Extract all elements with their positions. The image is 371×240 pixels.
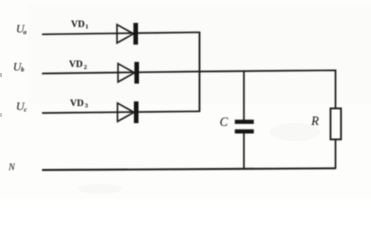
- svg-text:R: R: [310, 114, 319, 128]
- diode VD2: [118, 62, 139, 84]
- label VD3: [70, 99, 89, 110]
- wire Uc phase line: [42, 111, 200, 113]
- wire DC positive rail: [200, 70, 336, 108]
- node N label: [8, 163, 16, 173]
- diode VD1: [117, 23, 138, 45]
- capacitor C: [235, 120, 254, 134]
- resistor R: [331, 108, 342, 139]
- svg-text:2: 2: [84, 64, 87, 71]
- node Ub label: [13, 61, 25, 73]
- wire Ua phase line: [42, 32, 200, 34]
- svg-text:1: 1: [85, 23, 88, 30]
- label C: [220, 115, 229, 129]
- diode VD3: [118, 101, 139, 123]
- wire capacitor top lead: [243, 71, 245, 120]
- svg-text:VD: VD: [69, 60, 83, 70]
- node Uc label: [16, 101, 27, 114]
- svg-text:c: c: [24, 106, 27, 113]
- node Ua label: [16, 24, 27, 36]
- label VD2: [69, 60, 87, 71]
- svg-text:C: C: [220, 115, 229, 129]
- wire capacitor bottom lead: [243, 134, 245, 170]
- wire N neutral line: [42, 168, 336, 170]
- svg-text:VD: VD: [70, 99, 84, 109]
- svg-text:N: N: [8, 163, 16, 173]
- label R: [310, 114, 319, 128]
- wire Ub phase line: [42, 72, 200, 74]
- svg-text:VD: VD: [71, 20, 85, 30]
- label VD1: [71, 20, 89, 31]
- wire resistor bottom lead: [335, 139, 337, 168]
- wire cathode bus: [199, 32, 201, 112]
